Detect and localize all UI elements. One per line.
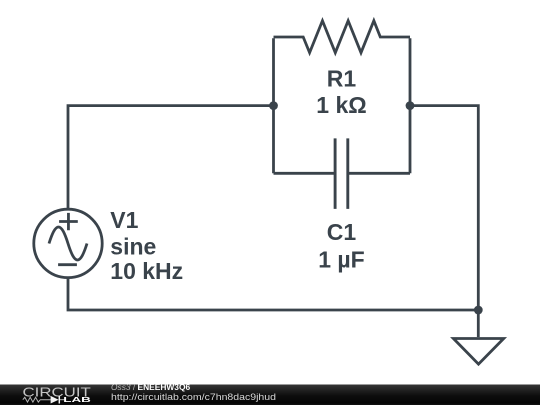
CircuitLab logo <box>23 385 92 404</box>
node ground junction dot <box>474 306 483 315</box>
svg-text:1 µF: 1 µF <box>318 247 364 273</box>
svg-text:C1: C1 <box>327 219 357 245</box>
capacitor C1 <box>335 138 348 209</box>
wire <box>272 38 275 173</box>
voltage source V1 <box>34 209 102 277</box>
node A junction dot <box>269 101 278 110</box>
wire <box>409 38 412 173</box>
footer bar <box>0 385 540 405</box>
resistor R1 <box>274 21 411 53</box>
wire <box>410 106 478 310</box>
wire <box>274 172 336 175</box>
svg-text:10 kHz: 10 kHz <box>110 258 183 284</box>
svg-text:1 kΩ: 1 kΩ <box>316 92 366 118</box>
svg-text:LAB: LAB <box>63 395 91 404</box>
svg-text:Oss3 / ENEEHW3Q6: Oss3 / ENEEHW3Q6 <box>111 382 190 392</box>
wire <box>68 278 478 310</box>
wire <box>348 172 410 175</box>
svg-text:R1: R1 <box>327 66 357 92</box>
node B junction dot <box>406 101 415 110</box>
ground <box>453 310 503 364</box>
wire <box>68 106 274 210</box>
svg-text:V1: V1 <box>110 207 138 233</box>
svg-text:sine: sine <box>110 234 156 260</box>
svg-text:http://circuitlab.com/c7hn8dac: http://circuitlab.com/c7hn8dac9jhud <box>111 392 276 403</box>
